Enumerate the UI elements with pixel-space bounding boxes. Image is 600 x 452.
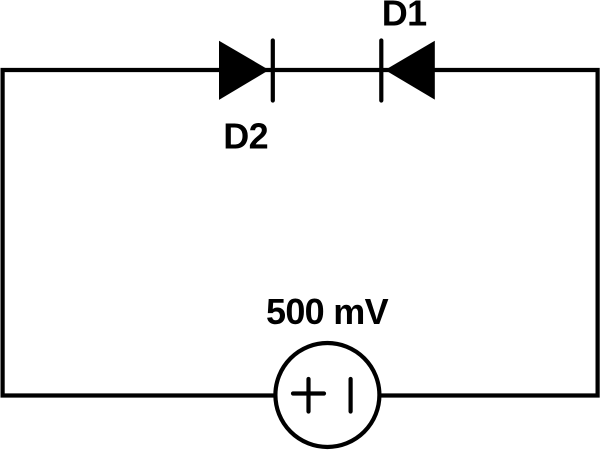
diode D2 triangle (anode left, pointing right): [219, 41, 269, 100]
wire loop (left, top, right, bottom nets): [3, 70, 598, 396]
diode D2 cathode bar: [271, 41, 275, 101]
voltage source minus bar: [349, 379, 353, 412]
svg-text:D2: D2: [223, 115, 268, 156]
diode D1 triangle (pointing left): [385, 41, 435, 100]
diode D1 cathode bar: [379, 41, 383, 101]
voltage source V1 circle: [275, 343, 379, 447]
voltage source plus sign: [293, 391, 324, 395]
svg-text:D1: D1: [382, 0, 427, 34]
svg-text:500 mV: 500 mV: [266, 291, 389, 332]
